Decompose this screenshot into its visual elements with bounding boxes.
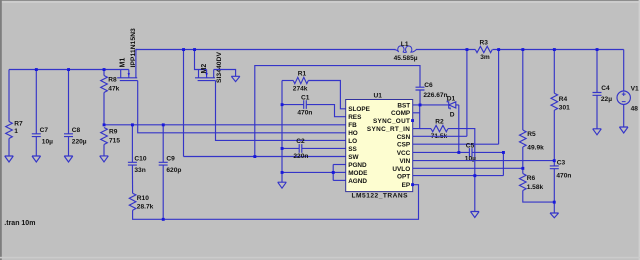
- wire SW row: [184, 156, 346, 158]
- capacitor C4: [593, 50, 613, 129]
- svg-text:HO: HO: [348, 130, 358, 137]
- svg-text:28.7k: 28.7k: [137, 203, 154, 210]
- pin EP marker: [411, 183, 414, 186]
- svg-text:10µ: 10µ: [42, 139, 53, 146]
- svg-text:1.58k: 1.58k: [527, 184, 544, 191]
- ground C3: [550, 213, 559, 218]
- wire PGND MODE AGND bracket: [332, 165, 334, 181]
- svg-text:10µ: 10µ: [465, 156, 476, 163]
- junction VIN net / R4 bottom: [553, 159, 556, 162]
- wire M2 gate to LO: [216, 81, 346, 141]
- ground M2: [231, 76, 240, 81]
- svg-text:620p: 620p: [166, 167, 181, 174]
- capacitor C2: [282, 138, 346, 160]
- wire VIN row: [413, 160, 555, 162]
- svg-text:715: 715: [109, 137, 120, 144]
- svg-text:M1: M1: [119, 58, 126, 68]
- wire VCC row with C5: [413, 151, 470, 153]
- svg-text:AGND: AGND: [348, 178, 367, 185]
- capacitor C10: [128, 125, 147, 193]
- op-amp U1 LM5122_TRANS: [346, 93, 413, 200]
- capacitor C8: [64, 70, 87, 157]
- junction C2 left / SS net: [281, 147, 284, 150]
- frame artifacts: [0, 0, 640, 1]
- svg-text:L1: L1: [401, 41, 409, 48]
- ground C1 C2 chain: [278, 182, 287, 188]
- voltage source V1: [617, 50, 639, 128]
- junction C9 top / FB net: [162, 123, 165, 126]
- svg-text:470n: 470n: [556, 173, 571, 180]
- node slope/comp column x=282: [281, 81, 283, 183]
- wire COMP stub: [413, 112, 420, 114]
- junction ground column / MODE net: [281, 171, 284, 174]
- ground OPT: [471, 212, 480, 218]
- svg-text:48: 48: [631, 106, 639, 113]
- wire M1 gate to HO: [138, 81, 346, 133]
- svg-text:M2: M2: [201, 64, 208, 74]
- wire M1 drain to rail: [136, 50, 137, 70]
- wire MODE row to ground column: [282, 171, 333, 173]
- resistor R6: [520, 174, 555, 203]
- resistor R10: [129, 193, 153, 210]
- svg-text:47k: 47k: [108, 86, 119, 93]
- svg-text:.tran 10m: .tran 10m: [4, 220, 35, 227]
- wire CSP row: [413, 143, 499, 145]
- transistor M1: [117, 28, 138, 81]
- junction C5 right / VCC net: [502, 151, 505, 154]
- svg-text:MODE: MODE: [348, 170, 368, 177]
- junction D1 anode / VCC net: [457, 151, 460, 154]
- wire D1 to VCC: [458, 105, 460, 152]
- wire bottom rail y=219.3: [133, 185, 419, 220]
- svg-text:SYNC_RT_IN: SYNC_RT_IN: [367, 126, 410, 133]
- junction R3 left / CSN sense: [466, 48, 469, 51]
- svg-text:UVLO: UVLO: [392, 166, 410, 173]
- svg-text:EP: EP: [402, 182, 411, 189]
- svg-text:R3: R3: [480, 40, 489, 47]
- svg-text:R9: R9: [109, 129, 118, 136]
- wire VCC dot column to OPT row: [502, 152, 504, 175]
- svg-text:1: 1: [14, 128, 18, 135]
- wire top rail y=49.5: [136, 49, 395, 51]
- junction C9 bottom / AGND rail: [162, 218, 165, 221]
- pin SYNC_OUT unconnected marker: [411, 119, 414, 122]
- junction C7 / output rail: [35, 68, 38, 71]
- junction R8-R9 / FB net: [103, 123, 106, 126]
- svg-text:SW: SW: [348, 154, 359, 161]
- resistor R5: [520, 50, 545, 174]
- resistor R3: [475, 40, 492, 62]
- capacitor C7: [32, 70, 53, 157]
- capacitor C6: [416, 82, 448, 105]
- capacitor C5: [465, 142, 504, 162]
- svg-text:C5: C5: [466, 142, 475, 149]
- capacitor C9: [159, 125, 182, 220]
- svg-text:FB: FB: [348, 122, 357, 129]
- svg-text:C2: C2: [296, 138, 305, 145]
- junction C3 bottom / ground: [553, 201, 556, 204]
- svg-text:C7: C7: [40, 127, 49, 134]
- svg-text:D: D: [450, 111, 455, 118]
- svg-text:274k: 274k: [293, 85, 308, 92]
- junction R4 top / supply rail: [553, 48, 556, 51]
- svg-text:C6: C6: [424, 82, 433, 89]
- wire BST row: [413, 104, 449, 106]
- svg-text:OPT: OPT: [397, 173, 410, 180]
- resistor R7: [6, 70, 23, 157]
- resistor R2: [420, 118, 475, 175]
- capacitor C1: [282, 94, 346, 116]
- svg-text:R5: R5: [527, 131, 536, 138]
- wire SW loop: [255, 66, 420, 157]
- svg-text:R8: R8: [108, 76, 117, 83]
- junction R5 top / supply rail: [521, 48, 524, 51]
- svg-text:470n: 470n: [297, 109, 312, 116]
- svg-text:R6: R6: [527, 175, 536, 182]
- svg-text:220µ: 220µ: [72, 139, 87, 146]
- svg-text:BST: BST: [397, 102, 410, 109]
- resistor R8: [101, 70, 120, 125]
- svg-text:U1: U1: [374, 93, 383, 100]
- svg-text:LO: LO: [348, 138, 357, 145]
- svg-text:22µ: 22µ: [601, 96, 612, 103]
- svg-text:C10: C10: [134, 155, 146, 162]
- wire BST to R2 column: [413, 105, 420, 129]
- wire M2 source to ground: [214, 70, 236, 77]
- svg-text:45.585µ: 45.585µ: [394, 55, 418, 62]
- svg-text:C3: C3: [557, 160, 566, 167]
- svg-text:301: 301: [559, 105, 570, 112]
- ground C8: [64, 156, 73, 162]
- svg-text:D1: D1: [447, 96, 456, 103]
- svg-text:LM5122_TRANS: LM5122_TRANS: [352, 193, 409, 200]
- svg-text:CSN: CSN: [397, 134, 411, 141]
- transistor M2: [195, 50, 223, 84]
- svg-text:C9: C9: [166, 155, 175, 162]
- svg-text:R10: R10: [137, 195, 149, 202]
- resistor R4: [551, 50, 570, 161]
- junction M2 lead / SW rail: [193, 48, 196, 51]
- wire OPT column to ground: [474, 176, 476, 212]
- wire CSN row: [413, 135, 467, 137]
- junction UVLO / R5-R6 divider: [521, 167, 524, 170]
- svg-text:V1: V1: [631, 86, 639, 93]
- svg-text:RES: RES: [348, 114, 362, 121]
- junction SW loop / SW row: [253, 155, 256, 158]
- svg-text:3m: 3m: [480, 54, 490, 61]
- inductor L1: [394, 41, 418, 62]
- svg-text:C4: C4: [601, 85, 610, 92]
- svg-text:C1: C1: [301, 94, 310, 101]
- wire vout rail y=69.5: [9, 69, 121, 71]
- ground R9: [100, 156, 109, 162]
- svg-text:CSP: CSP: [397, 142, 411, 149]
- junction M2 drain / SW rail: [182, 48, 185, 51]
- svg-text:R1: R1: [298, 71, 307, 78]
- wire UVLO row: [413, 167, 523, 169]
- svg-text:COMP: COMP: [391, 110, 411, 117]
- svg-text:220n: 220n: [293, 153, 308, 160]
- ground C7: [32, 156, 41, 162]
- svg-text:SS: SS: [348, 146, 357, 153]
- junction C4 top / supply rail: [596, 48, 599, 51]
- wire M2 drain rail drop / SW column: [183, 50, 185, 157]
- junction R8 top / output rail: [103, 68, 106, 71]
- svg-text:C8: C8: [72, 127, 81, 134]
- svg-text:49.9k: 49.9k: [527, 144, 544, 151]
- wire OPT row: [413, 175, 504, 177]
- svg-text:VCC: VCC: [397, 150, 411, 157]
- junction OPT net / R2 ground leg: [473, 174, 476, 177]
- node A - C1/R1 left junction: [281, 103, 284, 106]
- svg-text:VIN: VIN: [400, 158, 411, 165]
- svg-text:226.67n: 226.67n: [423, 92, 447, 99]
- diode D1: [447, 96, 459, 119]
- resistor R9: [101, 128, 121, 156]
- resistor R1: [282, 71, 346, 109]
- svg-text:R4: R4: [559, 96, 568, 103]
- ground R7: [5, 156, 14, 162]
- svg-text:R2: R2: [435, 118, 444, 125]
- wire fb rail y=124.8: [104, 124, 346, 126]
- svg-text:R7: R7: [14, 121, 23, 128]
- svg-text:SI3440DV: SI3440DV: [216, 52, 223, 83]
- svg-text:SLOPE: SLOPE: [348, 106, 370, 113]
- junction C10 top / FB net: [131, 123, 134, 126]
- junction BST / C6 / D1: [419, 104, 422, 107]
- capacitor C3: [550, 160, 572, 213]
- ground V1: [619, 127, 628, 133]
- svg-text:33n: 33n: [134, 167, 145, 174]
- junction R3 right / CSP sense: [497, 48, 500, 51]
- svg-text:SYNC_OUT: SYNC_OUT: [373, 118, 410, 125]
- svg-text:PGND: PGND: [348, 162, 367, 169]
- ground C4: [593, 129, 602, 135]
- junction C8 / output rail: [67, 68, 70, 71]
- junction MODE bracket: [332, 171, 335, 174]
